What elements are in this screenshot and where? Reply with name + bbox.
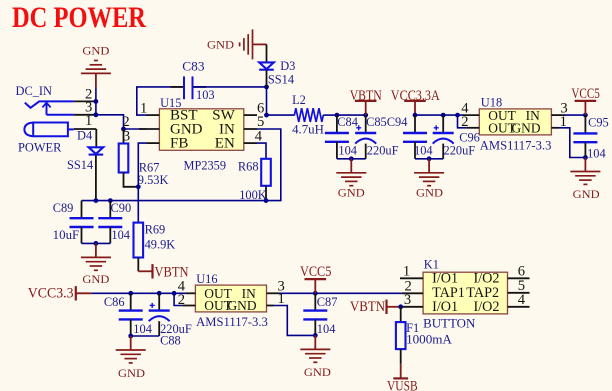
ground below C86 — [116, 336, 146, 380]
ground below C89/C90 — [81, 243, 111, 286]
svg-text:C87: C87 — [317, 295, 338, 309]
svg-text:220uF: 220uF — [367, 143, 399, 157]
junction pin3 — [94, 112, 99, 117]
svg-text:GND: GND — [118, 366, 145, 380]
pin 1 of U18 — [551, 114, 567, 130]
pin 6 SW of U15 — [244, 100, 264, 116]
wire C83 node down to SW node — [266, 87, 268, 115]
junction C95 gnd — [583, 155, 588, 160]
svg-text:104: 104 — [317, 322, 336, 336]
diode D4 SS14 — [67, 129, 103, 173]
svg-text:104: 104 — [133, 322, 152, 336]
svg-text:1: 1 — [403, 264, 410, 280]
junction C83/D3 — [264, 85, 269, 90]
svg-text:GND: GND — [338, 185, 365, 199]
svg-text:SS14: SS14 — [268, 73, 294, 87]
pin 4 of U16 — [178, 279, 196, 295]
resistor R69 49.9K — [134, 223, 176, 258]
ground top-left — [81, 43, 111, 87]
power VCC5 top-right — [571, 86, 600, 115]
junction VCC5/C95 — [583, 113, 588, 118]
wire U16 pin3 to K1 pin2 — [280, 292, 402, 294]
wire C84-C85 bottom — [337, 158, 366, 160]
wire VCC3.3 rail — [92, 292, 186, 294]
pin 5 of K1 — [508, 278, 530, 294]
svg-text:VBTN: VBTN — [350, 88, 382, 104]
wire U16 pin1 down to gnd node — [274, 306, 316, 336]
svg-text:D4: D4 — [77, 129, 92, 143]
junction C86 — [128, 291, 133, 296]
capacitor C90 104 — [98, 201, 131, 244]
connector DC_IN — [16, 84, 74, 155]
junction K1 pin3 / F1 — [398, 304, 403, 309]
pin 1 of K1 — [400, 264, 423, 280]
pin 1 BST of U15 — [140, 101, 159, 117]
junction C94 — [413, 113, 418, 118]
junction C88 — [157, 291, 162, 296]
wire VCC3.3A rail — [415, 114, 463, 116]
svg-text:R68: R68 — [238, 160, 259, 174]
junction U15 pin2 node — [121, 127, 126, 132]
wire pin2 to pin3 — [95, 101, 97, 114]
svg-text:10uF: 10uF — [53, 228, 80, 242]
svg-text:I/O1: I/O1 — [432, 299, 458, 315]
junction R68 rail — [264, 198, 269, 203]
pin 2 of U16 — [178, 292, 196, 308]
svg-text:C85C94: C85C94 — [366, 115, 407, 129]
svg-text:GND: GND — [227, 298, 256, 313]
regulator U16 AMS1117-3.3 body — [195, 272, 267, 329]
svg-text:C95: C95 — [588, 115, 609, 129]
junction FB/R69 — [136, 184, 141, 189]
wire K1 pin3 down to F1 — [400, 307, 402, 322]
capacitor C96 220uF — [433, 115, 480, 159]
svg-text:1: 1 — [140, 101, 147, 117]
svg-text:C89: C89 — [53, 201, 74, 215]
pin 2 of DC_IN — [74, 87, 96, 103]
wire pin1 corner down to D4 — [95, 129, 97, 147]
pin 3 of U16 — [267, 279, 285, 295]
svg-text:49.9K: 49.9K — [145, 238, 176, 252]
ground below C95 — [570, 158, 600, 201]
pin 4 of U18 — [461, 101, 479, 117]
capacitor C87 104 — [303, 293, 337, 336]
wire R68 bottom to input rail — [265, 186, 267, 201]
svg-text:C88: C88 — [160, 334, 181, 348]
wire GND corner down to D3 — [266, 44, 268, 62]
svg-text:GND: GND — [573, 187, 600, 201]
junction C84 — [335, 113, 340, 118]
svg-text:1: 1 — [85, 113, 92, 129]
junction C89 gnd — [94, 241, 99, 246]
svg-text:VUSB: VUSB — [387, 379, 418, 391]
inductor L2 4.7uH — [292, 93, 324, 136]
junction group2 gnd — [427, 156, 432, 161]
switch K1 BUTTON body — [423, 257, 507, 330]
wire D4 cathode down to input rail — [95, 155, 97, 200]
svg-text:VCC3.3: VCC3.3 — [28, 286, 74, 302]
wire pin3 to U15 GND corner — [96, 115, 124, 129]
svg-text:POWER: POWER — [18, 141, 62, 155]
wire L2 to C84 node — [323, 114, 337, 116]
junction pin2 — [94, 99, 99, 104]
pin 2 of U18 — [461, 114, 479, 130]
wire U15 pin2 node down to R67 — [123, 129, 125, 144]
svg-text:C90: C90 — [111, 201, 132, 215]
svg-text:104: 104 — [414, 143, 433, 157]
svg-text:VCC3.3A: VCC3.3A — [391, 88, 441, 104]
svg-text:AMS1117-3.3: AMS1117-3.3 — [196, 315, 268, 329]
svg-text:DC_IN: DC_IN — [16, 84, 53, 98]
junction U18 corner — [455, 113, 460, 118]
pin 3 of DC_IN — [74, 99, 96, 115]
svg-text:VCC5: VCC5 — [571, 86, 600, 102]
wire corner down to U18 pin2 — [458, 115, 467, 128]
capacitor C83 103 — [171, 59, 215, 101]
ground below C94/C96 — [414, 159, 444, 200]
pin 5 IN of U15 — [244, 114, 264, 130]
power VBTN mid — [138, 264, 188, 280]
power VBTN at K1 — [350, 299, 401, 315]
svg-text:D3: D3 — [280, 59, 295, 73]
wire U15 pin3 FB down to R69 — [138, 143, 146, 223]
junction C96 — [441, 113, 446, 118]
svg-text:GND: GND — [82, 43, 109, 57]
wire U15 pin5 IN down right side — [82, 129, 281, 201]
wire C84 node to VBTN node — [337, 114, 366, 116]
junction SW node — [264, 113, 269, 118]
capacitor C88 220uF — [149, 293, 192, 347]
pin 6 of K1 — [508, 264, 530, 280]
regulator U18 AMS1117-3.3 body — [479, 95, 551, 152]
capacitor C94 104 — [403, 115, 433, 159]
wire C94-C96 bottom — [415, 158, 443, 160]
svg-text:C96: C96 — [459, 130, 480, 144]
svg-text:104: 104 — [338, 143, 357, 157]
svg-text:4: 4 — [518, 292, 526, 308]
svg-text:1000mA: 1000mA — [406, 333, 452, 347]
svg-text:DC POWER: DC POWER — [12, 1, 146, 34]
pin 2 of K1 — [402, 279, 423, 295]
svg-text:C86: C86 — [104, 295, 125, 309]
wire R69 bottom — [137, 258, 139, 272]
svg-text:4.7uH: 4.7uH — [292, 122, 324, 136]
svg-text:VBTN: VBTN — [350, 299, 385, 315]
wire GND to pin2 junction — [95, 87, 97, 101]
wire U15 pin1 up to C83 — [137, 87, 183, 115]
op-amp U15 MP2359 body — [159, 96, 243, 173]
capacitor C85 220uF — [355, 115, 407, 159]
svg-text:C83: C83 — [182, 59, 204, 73]
svg-text:GND: GND — [207, 38, 234, 52]
fuse F1 1000mA — [396, 321, 452, 349]
pin 3 of U18 — [551, 101, 567, 117]
svg-text:100K: 100K — [239, 188, 267, 202]
power VBTN top — [350, 88, 382, 115]
capacitor C89 10uF — [53, 201, 94, 244]
power VUSB — [387, 364, 418, 391]
capacitor C84 104 — [325, 115, 358, 159]
power VCC3.3 — [28, 286, 92, 302]
pin 3 of K1 — [401, 292, 423, 308]
capacitor C86 104 — [104, 293, 152, 336]
junction C86 gnd — [128, 334, 133, 339]
svg-text:C84: C84 — [337, 115, 358, 129]
resistor R68 100K — [238, 159, 271, 202]
junction VCC5/C87 — [313, 291, 318, 296]
svg-text:GND: GND — [416, 186, 443, 200]
svg-text:U16: U16 — [196, 272, 217, 286]
svg-text:MP2359: MP2359 — [184, 158, 227, 172]
svg-text:I/O2: I/O2 — [474, 299, 500, 315]
svg-text:BUTTON: BUTTON — [423, 316, 475, 330]
wire U18 pin1 down to gnd node — [559, 128, 586, 158]
wire C83 right to SW/D3 node — [193, 86, 266, 88]
wire C89-C90 bottom — [82, 242, 111, 244]
svg-text:SS14: SS14 — [67, 158, 93, 172]
pin 2 GND of U15 — [122, 114, 159, 130]
svg-text:L2: L2 — [292, 93, 306, 107]
svg-text:2: 2 — [178, 292, 185, 308]
svg-text:VCC5: VCC5 — [300, 264, 332, 280]
ground top-right rotated — [207, 29, 267, 59]
svg-text:220uF: 220uF — [444, 143, 476, 157]
pin 4 EN of U15 — [244, 128, 263, 144]
junction U16 corner — [172, 291, 177, 296]
svg-text:GND: GND — [511, 120, 540, 135]
wire SW node to L2 — [267, 114, 295, 116]
power VCC3.3A — [391, 88, 441, 115]
capacitor C95 104 — [573, 115, 608, 160]
svg-text:2: 2 — [461, 114, 468, 130]
pin 3 FB of U15 — [123, 128, 160, 144]
wire D3 to C83 node — [266, 70, 268, 87]
wire U18 pin3 to VCC5 node — [565, 114, 585, 116]
svg-text:GND: GND — [82, 272, 109, 286]
power VCC5 lower — [300, 264, 332, 293]
svg-text:3: 3 — [404, 292, 411, 308]
junction VBTN/C85 — [363, 113, 368, 118]
svg-text:104: 104 — [587, 146, 606, 160]
wire junction to U15 pin2 — [124, 128, 147, 130]
resistor R67 9.53K — [119, 144, 169, 188]
pin 4 of K1 — [508, 292, 530, 308]
pin 1 of DC_IN — [74, 113, 96, 129]
wire R67 bottom to FB node — [124, 173, 139, 187]
svg-text:9.53K: 9.53K — [138, 173, 169, 187]
junction group1 gnd — [349, 156, 354, 161]
wire F1 bottom to VUSB — [400, 349, 402, 364]
diode D3 SS14 — [259, 59, 295, 87]
wire corner down to U16 pin2 — [174, 293, 182, 305]
pin 1 of U16 — [267, 291, 285, 307]
wire C86-C88 bottom — [131, 335, 160, 337]
junction C87 gnd — [313, 333, 318, 338]
junction C90 rail — [108, 198, 113, 203]
wire R68 top from U15 pin4 — [257, 143, 266, 159]
svg-text:104: 104 — [111, 228, 130, 242]
svg-text:FB: FB — [170, 135, 188, 151]
svg-text:R69: R69 — [145, 223, 166, 237]
svg-text:103: 103 — [196, 88, 215, 102]
svg-text:4: 4 — [255, 128, 263, 144]
junction D4 rail — [94, 198, 99, 203]
ground below C84/C85 — [336, 159, 366, 200]
svg-text:K1: K1 — [424, 257, 439, 271]
ground below C87 — [300, 335, 331, 379]
svg-text:GND: GND — [304, 365, 331, 379]
svg-text:EN: EN — [215, 135, 235, 151]
svg-text:AMS1117-3.3: AMS1117-3.3 — [480, 139, 552, 153]
